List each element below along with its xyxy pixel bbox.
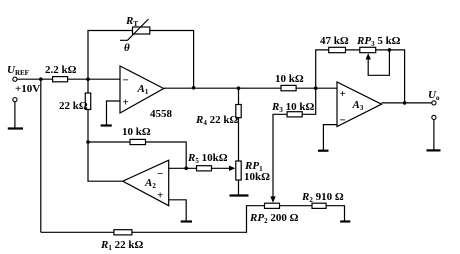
potentiometer RP3 box bbox=[360, 47, 376, 52]
wire RP2 to R2 bbox=[280, 206, 345, 221]
terminal U_REF bbox=[13, 77, 17, 81]
svg-text:−: − bbox=[123, 75, 129, 87]
svg-text:2.2 kΩ: 2.2 kΩ bbox=[45, 64, 77, 76]
svg-text:−: − bbox=[340, 115, 346, 127]
thermistor RT box bbox=[133, 27, 150, 34]
resistor 22k vertical box bbox=[85, 93, 90, 110]
resistor R1 box bbox=[114, 230, 132, 235]
svg-text:+: + bbox=[157, 190, 163, 202]
wire RT feedback loop bbox=[88, 31, 194, 88]
node wiper junction bbox=[388, 48, 392, 52]
op-amp A2 bbox=[123, 160, 169, 206]
svg-text:4558: 4558 bbox=[150, 108, 173, 120]
wire A1 output line bbox=[164, 87, 337, 89]
resistor R3 box bbox=[287, 112, 302, 117]
svg-text:+10V: +10V bbox=[15, 83, 40, 95]
ground output bbox=[427, 149, 441, 151]
resistor R5 box bbox=[197, 166, 212, 171]
potentiometer RP1 box bbox=[236, 161, 241, 180]
ground A1 bbox=[101, 124, 112, 126]
op-amp A1 bbox=[120, 66, 164, 113]
wiper arrow into RP3 bbox=[366, 53, 371, 59]
svg-text:10kΩ: 10kΩ bbox=[244, 171, 270, 183]
wire A1 noninverting to ground bbox=[107, 101, 120, 125]
svg-text:−: − bbox=[157, 168, 163, 180]
terminal Uo bbox=[432, 101, 436, 105]
node comparator input bbox=[314, 86, 318, 90]
svg-text:R5 10kΩ: R5 10kΩ bbox=[187, 152, 228, 165]
terminal lower output bbox=[432, 115, 436, 119]
wire A2 plus to ground bbox=[169, 200, 187, 221]
svg-text:RP2 200 Ω: RP2 200 Ω bbox=[249, 212, 299, 225]
node A1 inverting input bbox=[86, 77, 90, 81]
svg-text:θ: θ bbox=[124, 42, 130, 54]
wire R4 branch bbox=[238, 88, 240, 195]
resistor 10k feedback box bbox=[130, 139, 146, 144]
wire R3 path bbox=[273, 88, 316, 199]
op-amp A3 bbox=[337, 82, 382, 127]
svg-text:22 kΩ: 22 kΩ bbox=[59, 100, 88, 112]
node R4 branch bbox=[237, 86, 241, 90]
svg-text:47 kΩ: 47 kΩ bbox=[320, 35, 349, 47]
wire 22k branch down to A2 output bbox=[88, 79, 123, 181]
svg-text:10 kΩ: 10 kΩ bbox=[275, 73, 304, 85]
wire input line bbox=[17, 78, 120, 80]
resistor 47k box bbox=[329, 47, 346, 52]
svg-text:R1 22 kΩ: R1 22 kΩ bbox=[100, 239, 143, 252]
svg-text:+: + bbox=[123, 97, 129, 109]
wire lower output to ground bbox=[433, 120, 435, 151]
resistor R4 box bbox=[236, 105, 241, 118]
wire bottom rail bbox=[41, 206, 265, 233]
ground A2 bbox=[181, 220, 192, 222]
thermistor RT diagonal bbox=[120, 19, 149, 40]
node A3 output junction bbox=[403, 101, 407, 105]
svg-text:RP3 5 kΩ: RP3 5 kΩ bbox=[356, 35, 401, 48]
resistor R2 box bbox=[312, 203, 326, 208]
node branch junction bbox=[39, 77, 43, 81]
wire A3 output bbox=[382, 102, 432, 104]
resistor 10k top box bbox=[281, 85, 296, 90]
wire A3 inverting to ground bbox=[323, 125, 337, 151]
ground R2 bbox=[340, 220, 350, 222]
wire lower terminal to ground bbox=[14, 102, 16, 128]
svg-text:R3 10 kΩ: R3 10 kΩ bbox=[271, 101, 314, 114]
wire RP3 wiper loop bbox=[368, 50, 389, 75]
wire 47k feedback line bbox=[316, 50, 405, 103]
wire A2 feedback bbox=[88, 142, 186, 168]
ground lower input bbox=[8, 127, 23, 129]
wire left branch down bbox=[40, 79, 42, 232]
svg-text:+: + bbox=[340, 88, 346, 100]
svg-text:R4 22 kΩ: R4 22 kΩ bbox=[195, 114, 238, 127]
wiper arrow into RP2 bbox=[270, 196, 275, 202]
node A2 output junction bbox=[86, 140, 90, 144]
svg-text:10 kΩ: 10 kΩ bbox=[122, 126, 151, 138]
potentiometer RP2 box bbox=[265, 203, 280, 208]
wiper arrow into RP1 bbox=[229, 166, 235, 171]
wire A2 inverting to R5 bbox=[169, 167, 232, 169]
terminal lower input bbox=[13, 98, 17, 102]
ground A3 bbox=[318, 150, 329, 152]
resistor 2.2k box bbox=[53, 77, 68, 82]
node A2 inverting junction bbox=[184, 167, 188, 171]
node RT to output junction bbox=[192, 86, 196, 90]
ground below RP1 bbox=[230, 194, 249, 196]
svg-text:R2 910 Ω: R2 910 Ω bbox=[301, 191, 344, 204]
